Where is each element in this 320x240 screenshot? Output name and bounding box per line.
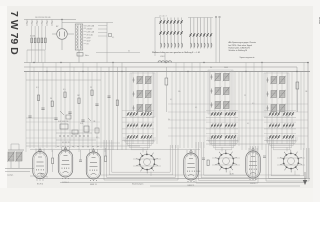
switch bank S1 hooks bbox=[161, 43, 183, 47]
AF section cluster bbox=[56, 111, 99, 147]
svg-text:0,1: 0,1 bbox=[112, 37, 114, 39]
svg-text:bei 220V~ Netz ohne Signal: bei 220V~ Netz ohne Signal bbox=[229, 44, 253, 47]
svg-text:0,1: 0,1 bbox=[170, 99, 172, 101]
svg-text:Rohrenvoltm. 10MOhm/V: Rohrenvoltm. 10MOhm/V bbox=[229, 46, 251, 49]
coil L osc bbox=[158, 52, 172, 63]
trimmer caps B2 labels bbox=[210, 67, 228, 69]
switch bank S2 wires bbox=[191, 18, 211, 49]
svg-text:EBF 11: EBF 11 bbox=[90, 184, 97, 186]
node mains junction bbox=[61, 19, 62, 20]
wire row above tubes 2 bbox=[30, 149, 200, 151]
switch caption strip bbox=[152, 51, 200, 58]
ground arrow right bbox=[303, 172, 307, 185]
wave switch bank W2 bbox=[206, 111, 239, 150]
wire mid horizontal y52 bbox=[96, 51, 140, 53]
wire loop around W2 ring3 bbox=[201, 142, 253, 178]
wire comb behind B2 bbox=[210, 72, 239, 147]
resistor R block5 bbox=[91, 90, 93, 96]
wire loop around W3 ring1 bbox=[266, 144, 309, 181]
socket drum W2 bbox=[212, 147, 240, 175]
legend caption bbox=[239, 56, 255, 59]
switch bank S2 hooks bbox=[191, 43, 212, 47]
wire bus mid drop bbox=[296, 67, 298, 112]
bus +Ua bbox=[24, 62, 308, 64]
switch bank S1 top labels bbox=[159, 16, 167, 18]
legend table bbox=[229, 41, 256, 52]
switch bank S1 contacts row2 bbox=[159, 31, 183, 35]
svg-text:6,3V 1,2A: 6,3V 1,2A bbox=[87, 31, 95, 34]
baseline chassis 1 bbox=[36, 178, 310, 180]
svg-text:Alle Spannungen gegen Chassis: Alle Spannungen gegen Chassis bbox=[229, 41, 256, 44]
tube EBF11 IF bbox=[86, 148, 101, 186]
svg-text:7 W 79 D: 7 W 79 D bbox=[8, 11, 20, 55]
svg-text:25: 25 bbox=[244, 95, 246, 97]
baseline chassis 3 bbox=[150, 185, 300, 187]
wire mains top rail bbox=[24, 20, 113, 23]
svg-text:30: 30 bbox=[210, 67, 212, 69]
svg-text:Netz: Netz bbox=[85, 54, 89, 57]
svg-text:ECH 4: ECH 4 bbox=[37, 184, 44, 186]
svg-text:0,05: 0,05 bbox=[80, 123, 83, 125]
wire loop around W1 ring4 bbox=[112, 140, 170, 172]
rectifier tube EZ11 bbox=[52, 20, 74, 51]
wire top rail drop right bbox=[98, 23, 114, 63]
svg-text:50: 50 bbox=[50, 98, 52, 100]
wire row above tubes 1 bbox=[26, 145, 140, 147]
svg-text:5000: 5000 bbox=[224, 67, 228, 69]
wire ladder right bbox=[168, 104, 308, 136]
resistor right of EBF11 bbox=[105, 148, 107, 162]
resistor R block1 bbox=[37, 95, 39, 101]
switch bank S1 wires bbox=[161, 18, 182, 49]
tube ECH4 osc bbox=[58, 146, 73, 184]
svg-text:6,3V 0,9A: 6,3V 0,9A bbox=[87, 25, 95, 28]
svg-text:Lautspr.: Lautspr. bbox=[7, 174, 14, 177]
svg-text:EL 11: EL 11 bbox=[250, 183, 256, 185]
wire comb left bbox=[26, 63, 105, 153]
wire voltage taps bbox=[27, 20, 52, 27]
wire osc drop x155 bbox=[155, 18, 161, 57]
resistor right of B3 bbox=[296, 82, 299, 112]
svg-text:2x300V: 2x300V bbox=[87, 29, 94, 31]
wire comb behind B1 bbox=[133, 72, 157, 145]
wire comb centre-right bbox=[172, 63, 204, 149]
switch bank S2 frame bbox=[188, 17, 213, 19]
svg-text:a b c d e f: a b c d e f bbox=[159, 16, 167, 18]
svg-text:0,1: 0,1 bbox=[195, 107, 197, 109]
wire comb far-right bbox=[242, 63, 304, 151]
resistor R block2 bbox=[51, 101, 53, 107]
svg-text:Spannungswerte: Spannungswerte bbox=[239, 56, 255, 59]
wire comb behind B3 bbox=[267, 72, 292, 145]
switch bank S2 contacts row bbox=[189, 33, 212, 37]
node bus junctions bbox=[33, 62, 297, 72]
svg-text:Wellenschalter von vorn gesehe: Wellenschalter von vorn gesehen in Stell… bbox=[152, 51, 200, 54]
wire loop around W1 ring1 bbox=[104, 140, 178, 180]
fuse/resistor row Si bbox=[27, 26, 46, 63]
socket drum W3 bbox=[277, 147, 305, 175]
svg-text:0,5: 0,5 bbox=[252, 103, 254, 105]
power transformer Tr bbox=[75, 24, 83, 50]
wire loop around W3 ring3 bbox=[271, 144, 304, 176]
wire antenna pair bbox=[215, 16, 220, 62]
wave switch bank W1 bbox=[122, 111, 155, 150]
svg-text:25: 25 bbox=[90, 87, 92, 89]
wire loop around W3 ring2 bbox=[269, 144, 307, 178]
wire row right mid bbox=[206, 143, 305, 145]
socket drum W1 bbox=[133, 148, 161, 176]
resistor right of B1 bbox=[165, 67, 168, 112]
IF transformer B1 bbox=[130, 73, 155, 117]
IF transformer B2 bbox=[208, 70, 233, 114]
wire ladder left bbox=[26, 122, 100, 138]
wire link rows left bbox=[26, 80, 101, 118]
capacitor between tubes 2 bbox=[79, 150, 82, 162]
tube EL11 output bbox=[246, 147, 261, 185]
wire bus right drop bbox=[307, 62, 309, 178]
wire transformer secondary drop bbox=[79, 27, 86, 63]
baseline chassis 2 bbox=[60, 182, 306, 184]
svg-text:110 125 150 220 240: 110 125 150 220 240 bbox=[35, 17, 50, 19]
wire comb mid bbox=[109, 63, 126, 151]
components near EFM11 bbox=[202, 158, 209, 166]
title 7 W 79 D bbox=[8, 11, 20, 55]
svg-text:W 48: W 48 bbox=[196, 171, 200, 173]
resistor R block4 bbox=[78, 98, 80, 104]
component bottom left strip bbox=[30, 174, 48, 179]
svg-text:50k: 50k bbox=[178, 91, 181, 93]
wire loop around W2 ring4 bbox=[204, 142, 250, 175]
svg-text:95: 95 bbox=[46, 177, 48, 179]
label mains voltages bbox=[35, 17, 50, 19]
tube ECH4 mixer bbox=[33, 148, 48, 186]
resistor between tubes 1 bbox=[52, 150, 54, 172]
wire loop around W1 ring2 bbox=[107, 140, 176, 177]
svg-text:4V 1,1A: 4V 1,1A bbox=[87, 34, 94, 37]
components near EL11 bbox=[263, 156, 266, 158]
IF transformer B3 bbox=[264, 73, 289, 117]
wire loop around W1 ring3 bbox=[109, 140, 173, 175]
capacitor C marks left bbox=[28, 104, 98, 122]
label cluster left texts bbox=[36, 87, 92, 100]
svg-text:Schalter in Stellung M: Schalter in Stellung M bbox=[229, 49, 248, 52]
svg-text:L M K: L M K bbox=[160, 56, 165, 58]
svg-text:5k: 5k bbox=[168, 119, 170, 121]
value labels scatter bbox=[168, 91, 308, 125]
page number 343 bbox=[318, 17, 320, 25]
label bottom mid bbox=[196, 171, 234, 176]
switch mains bbox=[77, 53, 89, 58]
tick marks mains taps bbox=[26, 22, 53, 24]
tube EFM11 bbox=[184, 149, 199, 187]
label under W1 socket bbox=[132, 184, 143, 186]
svg-text:0,1: 0,1 bbox=[36, 87, 39, 89]
wire loop around W2 ring1 bbox=[196, 142, 258, 183]
transformer tap callouts bbox=[84, 25, 95, 46]
capacitor C mid marks bbox=[108, 96, 119, 106]
wave switch bank W3 bbox=[264, 111, 297, 150]
switch bank S1 contacts row1 bbox=[159, 20, 183, 24]
bus heater bbox=[24, 71, 310, 73]
wire loop around W2 ring2 bbox=[199, 142, 256, 180]
svg-text:5k: 5k bbox=[128, 51, 130, 53]
svg-text:Skalenlampen: Skalenlampen bbox=[132, 184, 143, 186]
wire long above baseline bbox=[100, 174, 300, 176]
bus screen bbox=[24, 66, 297, 68]
speaker and output transformer bbox=[5, 144, 34, 177]
svg-text:0,5: 0,5 bbox=[63, 89, 66, 91]
resistor R block3 bbox=[64, 92, 66, 98]
wire row above tubes 3 bbox=[26, 142, 120, 144]
svg-text:0,1: 0,1 bbox=[247, 123, 249, 125]
